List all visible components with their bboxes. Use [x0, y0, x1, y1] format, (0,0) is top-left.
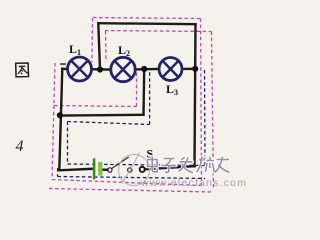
switch S terminal left: [108, 168, 112, 172]
label tu (figure) drawn glyph: [15, 62, 29, 77]
navy left vertical: [67, 122, 69, 165]
navy bottom horizontal lower: [58, 177, 206, 179]
navy mid horizontal: [68, 122, 150, 125]
wire L1-B stub: [91, 68, 111, 71]
lamp L3: [159, 58, 182, 81]
watermark chinese text strokes: [148, 157, 230, 173]
battery plate long (positive): [93, 158, 96, 179]
annotation navy dashed loop: [58, 70, 206, 179]
wire bottom left to battery: [59, 169, 92, 171]
switch S blade: [112, 157, 129, 169]
wire left vertical: [59, 69, 62, 171]
node C junction dot: [192, 66, 198, 72]
wire battery to switch stub: [102, 168, 108, 171]
wire node D down: [142, 69, 145, 115]
magenta top outer horizontal: [93, 18, 201, 19]
wire right vertical: [195, 24, 196, 166]
node A junction dot: [57, 112, 63, 118]
navy right vertical: [204, 70, 207, 166]
node B junction dot: [97, 66, 103, 72]
wire L2-D stub: [135, 68, 159, 71]
watermark logo circle: [119, 153, 150, 186]
battery plate long core: [94, 158, 95, 179]
magenta mid vertical: [136, 72, 138, 107]
svg-text:www.elecfans.com: www.elecfans.com: [140, 177, 247, 189]
watermark chinese text white halo: [148, 157, 230, 173]
magenta bottom horizontal A: [52, 180, 202, 186]
wire L3-C stub: [182, 68, 195, 70]
magenta right vertical outer: [201, 19, 202, 186]
lamp L1: [68, 57, 92, 81]
magenta inner top horizontal: [105, 31, 212, 32]
magenta outer left vertical: [91, 18, 94, 62]
navy below-wire vertical: [57, 168, 59, 177]
svg-text:4: 4: [16, 138, 24, 155]
magenta right vertical inner: [212, 32, 214, 191]
lamp L2: [111, 57, 135, 81]
magenta far-left vertical: [52, 63, 55, 179]
navy mid vertical up: [149, 71, 151, 125]
magenta inner left vertical: [105, 31, 108, 62]
magenta mid horizontal: [54, 106, 137, 107]
navy bottom horizontal upper: [68, 164, 205, 166]
switch S terminal right: [128, 168, 132, 172]
wire bottom right to switch: [145, 166, 195, 169]
wire D horizontal to node A: [60, 114, 144, 117]
wire top horizontal: [98, 23, 195, 24]
wire L1 left stub: [62, 68, 68, 71]
annotation magenta dashed loop top outer: [49, 18, 214, 193]
battery plate short thick (negative): [98, 162, 102, 176]
polarity tick near L1: [60, 63, 65, 65]
magenta bottom horizontal B: [49, 189, 214, 193]
wire top-left vertical to node B: [98, 23, 100, 69]
circuit black wires: [59, 23, 195, 170]
node D junction dot: [141, 66, 147, 72]
switch bold ring terminal: [140, 167, 145, 172]
